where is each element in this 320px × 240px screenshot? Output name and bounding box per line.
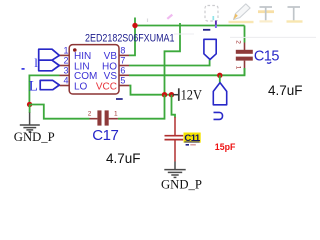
svg-text:4: 4 bbox=[64, 76, 69, 86]
icon pink dash bbox=[167, 15, 172, 19]
wire C15 top lead green bbox=[244, 26, 246, 43]
svg-text:VCC: VCC bbox=[96, 81, 117, 92]
svg-text:1: 1 bbox=[64, 45, 69, 55]
node VS junction bbox=[217, 73, 222, 78]
svg-text:12V: 12V bbox=[181, 87, 203, 103]
icon dashed clipboard bbox=[205, 6, 218, 22]
pin 5 stub bbox=[119, 85, 129, 87]
svg-text:5: 5 bbox=[120, 76, 125, 86]
capacitor C11 (thin style) bbox=[165, 117, 184, 162]
wire C15 bottom green bbox=[244, 68, 246, 75]
faint gray tick bbox=[147, 19, 149, 23]
svg-text:C15: C15 bbox=[254, 48, 279, 64]
IC origin dot bbox=[73, 48, 77, 52]
wire dot1 down to C17 right bbox=[118, 95, 165, 119]
navy dash above down-port bbox=[203, 29, 210, 31]
wire up-port stub bbox=[219, 75, 221, 82]
wire HO: pin7 to down-port bbox=[129, 60, 210, 66]
svg-text:2: 2 bbox=[235, 40, 242, 44]
svg-text:l: l bbox=[34, 55, 38, 70]
ground GND_P middle symbol bbox=[164, 162, 185, 178]
port single pentagon (LO) bbox=[40, 80, 59, 89]
rotated U glyph below up-port bbox=[214, 112, 223, 119]
small blue dash left bbox=[22, 68, 25, 70]
icon T underline bbox=[287, 7, 303, 23]
pin 4 stub bbox=[60, 85, 70, 87]
svg-text:2: 2 bbox=[88, 111, 92, 118]
wire junction down-left to pin 8 bbox=[129, 26, 135, 56]
wire gnd junction to C17 left bbox=[30, 105, 90, 119]
node junction J1 bbox=[132, 23, 137, 28]
wire VS: pin6 to C15 bottom bbox=[129, 68, 245, 75]
svg-text:15pF: 15pF bbox=[215, 142, 236, 152]
svg-text:L: L bbox=[29, 79, 38, 95]
svg-text:1: 1 bbox=[234, 66, 241, 70]
svg-text:2ED2182S06FXUMA1: 2ED2182S06FXUMA1 bbox=[85, 33, 175, 45]
pin 2 stub bbox=[60, 65, 70, 67]
svg-text:1: 1 bbox=[114, 111, 118, 118]
icon purple caret bbox=[215, 21, 217, 25]
ground GND_P left symbol bbox=[20, 113, 40, 132]
svg-text:2: 2 bbox=[64, 56, 69, 66]
svg-text:8: 8 bbox=[120, 45, 125, 55]
svg-text:GND_P: GND_P bbox=[14, 130, 55, 144]
pin 7 stub bbox=[119, 65, 129, 67]
op IC U? 2ED2182S06FXUMA1 body bbox=[69, 33, 174, 99]
wire dot2 down to C11 top bbox=[172, 95, 176, 118]
wire COM: pin3 left and down to gnd junction bbox=[29, 75, 59, 104]
wire VCC: pin5 down then right to +12V bbox=[129, 86, 173, 95]
icon pencil bbox=[229, 4, 254, 23]
IC designator underscore bbox=[116, 98, 123, 100]
pin 6 stub bbox=[119, 74, 129, 76]
node VCC rail dot2 bbox=[169, 92, 174, 97]
port down-pentagon (HO) bbox=[204, 39, 216, 59]
svg-text:C17: C17 bbox=[92, 127, 118, 144]
svg-text:4.7uF: 4.7uF bbox=[106, 151, 141, 166]
faint panel edge lines bbox=[174, 33, 194, 35]
icon T highlight bbox=[258, 7, 274, 23]
pin 3 stub bbox=[60, 74, 70, 76]
icon cyan tick bbox=[212, 16, 214, 20]
wire top horizontal to C15 bbox=[135, 25, 245, 27]
power port +12V bbox=[173, 87, 202, 103]
svg-text:7: 7 bbox=[120, 56, 125, 66]
port up-pentagon (VS) bbox=[213, 83, 226, 105]
pin 1 stub bbox=[60, 54, 70, 56]
svg-text:6: 6 bbox=[120, 65, 125, 75]
svg-text:4.7uF: 4.7uF bbox=[268, 83, 303, 98]
C11 highlighted label bbox=[184, 133, 201, 143]
capacitor C17 bbox=[88, 110, 119, 143]
wire branch x180 down to +12V rail bbox=[165, 23, 181, 95]
wire VB net: stub up from junction bbox=[134, 18, 136, 26]
node VCC rail dot1 bbox=[162, 92, 167, 97]
port double pentagon (HIN/LIN) bbox=[39, 49, 60, 71]
pin 8 stub bbox=[119, 54, 129, 56]
svg-text:3: 3 bbox=[64, 65, 69, 75]
svg-text:LO: LO bbox=[74, 81, 88, 92]
svg-text:GND_P: GND_P bbox=[161, 178, 202, 192]
node gnd junction bbox=[27, 102, 32, 107]
capacitor C15 bbox=[234, 40, 279, 70]
wire gnd stub down bbox=[29, 105, 31, 114]
